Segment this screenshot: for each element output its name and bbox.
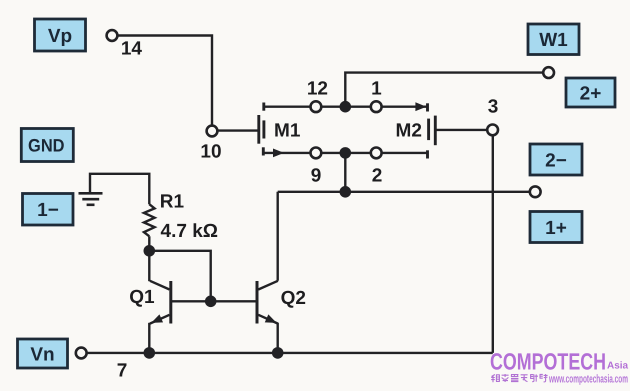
svg-text:2−: 2− [545,150,567,171]
svg-text:Vn: Vn [30,344,54,365]
svg-text:GND: GND [28,135,65,155]
svg-text:7: 7 [117,360,128,381]
svg-text:3: 3 [488,97,499,118]
svg-text:2: 2 [372,166,383,187]
svg-text:2+: 2+ [580,83,602,104]
svg-text:M1: M1 [274,121,301,142]
svg-text:9: 9 [311,166,322,187]
svg-text:R1: R1 [160,191,185,212]
svg-text:12: 12 [307,79,328,100]
svg-text:COMPOTECH: COMPOTECH [490,349,606,375]
svg-text:www.compotechasia.com: www.compotechasia.com [548,374,628,386]
svg-text:Vp: Vp [48,26,72,47]
svg-text:1−: 1− [37,200,59,221]
svg-text:1+: 1+ [545,218,567,239]
svg-text:1: 1 [371,79,382,100]
svg-text:Asia: Asia [607,361,629,372]
svg-text:W1: W1 [539,30,568,51]
svg-text:10: 10 [200,141,221,162]
svg-text:Q1: Q1 [129,287,155,308]
svg-text:M2: M2 [396,121,422,142]
svg-text:14: 14 [121,39,143,60]
svg-text:4.7 kΩ: 4.7 kΩ [161,221,219,242]
svg-text:Q2: Q2 [281,288,306,309]
